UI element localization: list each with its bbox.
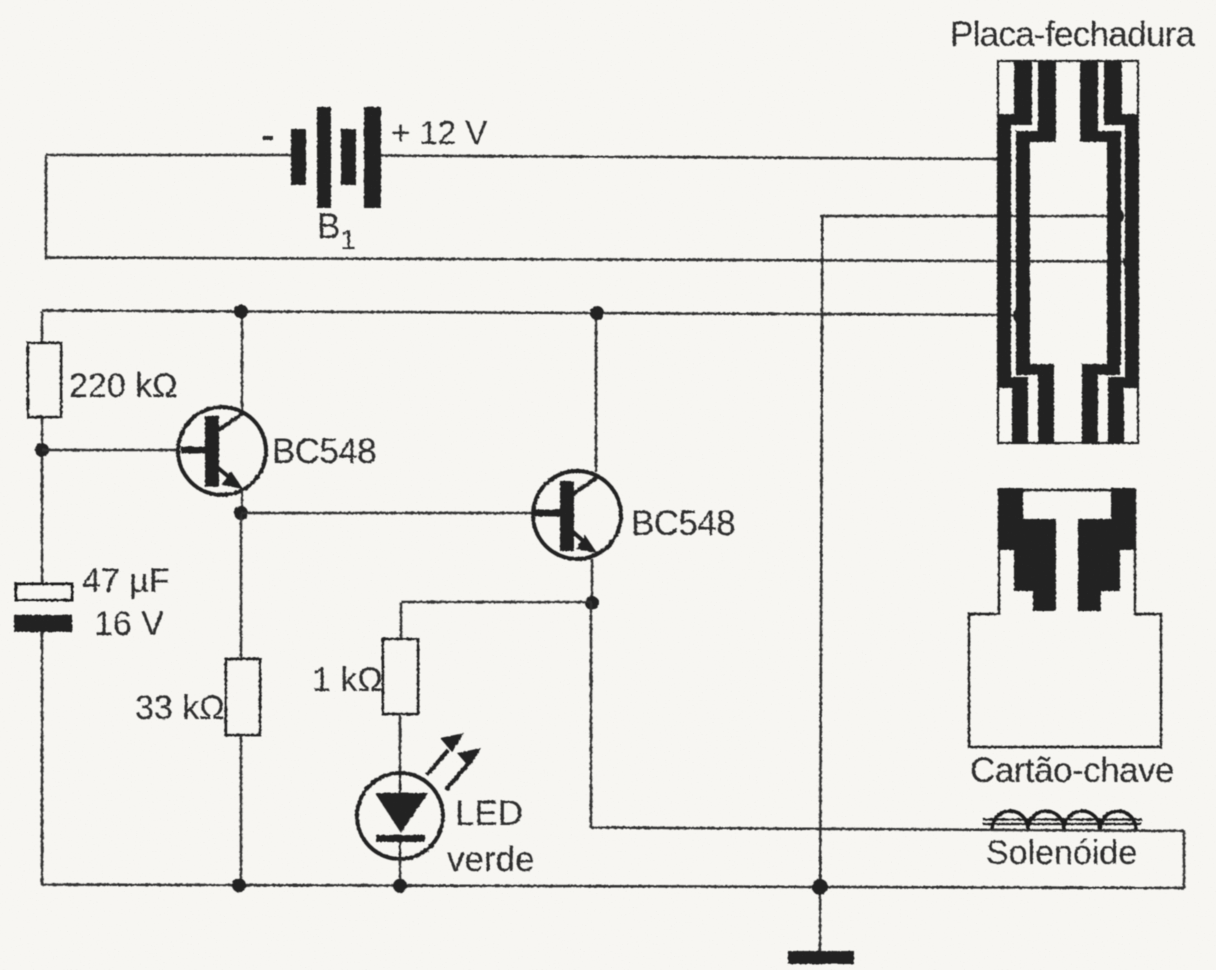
node: base divider junction [35,443,49,457]
LED arrow 2 [446,764,468,790]
wire: vertical from lock plate to ground [820,216,822,952]
node: LED bottom junction [393,879,407,893]
node: outer-right trace feed [1123,254,1139,270]
label: battery minus [263,136,273,140]
LED arrow 1 [427,750,448,775]
capacitor C1 bottom plate [14,615,72,632]
wire: Q2 emitter down [591,559,594,604]
node: 33k bottom junction [232,878,246,892]
wire: Q2 emitter junction left [401,601,592,604]
transistor Q1 BC548 [178,407,266,495]
lock plate trace outer-left [998,61,1032,443]
wire: solenoid box right edge [1183,831,1186,889]
wire: solenoid top rail [591,828,1184,832]
wire: battery positive to lock plate outer-left [381,156,1004,160]
wire: 33k to bottom rail [240,735,243,886]
wire: bottom rail [42,885,1184,889]
lock plate outline [998,61,1138,443]
node: Q1 collector on rail [234,305,248,319]
resistor 33k [226,659,260,735]
wire: down to 1k resistor [400,602,403,640]
wire: left battery loop vertical [45,155,48,260]
lock plate trace outer-right [1104,61,1138,443]
wire: junction down to 33k [240,513,243,660]
capacitor C1 47uF top plate [16,584,72,600]
node: inner-right trace feed [1108,208,1124,224]
wire: Q1 emitter down [241,490,244,514]
ground [788,951,854,964]
wire: Q2 emitter branch down [590,603,593,828]
node: Q2 emitter junction [585,596,599,610]
solenoid coil [983,811,1142,830]
node: Q2 collector on rail [590,306,604,320]
wire: Q1 emitter to Q2 base [241,512,534,515]
resistor 220k [28,343,61,417]
wire: battery bottom loop to lock plate outer-right [46,258,1131,262]
wire: LED to bottom rail [399,858,402,887]
node: Q1 emitter junction [234,506,248,520]
node: ground rail junction [812,879,828,895]
battery B1 [291,107,381,208]
wire: Q2 collector [595,313,598,472]
key card outline [969,490,1161,747]
wire: Q1 collector [241,312,244,414]
transistor Q2 BC548 [533,471,621,559]
lock plate trace inner-right [1080,61,1121,443]
key card left contact [999,488,1056,611]
LED verde [357,773,443,859]
wire: left column vertical [41,312,44,584]
lock plate trace inner-left [1016,61,1056,443]
resistor 1k [383,639,418,714]
wire: left column below capacitor [41,631,44,885]
node: inner-left trace feed [1013,308,1029,324]
wire: 1k to LED [399,714,402,775]
key card right contact [1078,488,1135,611]
wire: lock plate inner-right feed [820,215,1116,218]
node: +12V on outer-left trace [997,152,1012,167]
wire: junction to Q1 base [42,449,180,452]
wire: battery negative lead [46,154,291,157]
wire: main top rail [42,311,1021,316]
